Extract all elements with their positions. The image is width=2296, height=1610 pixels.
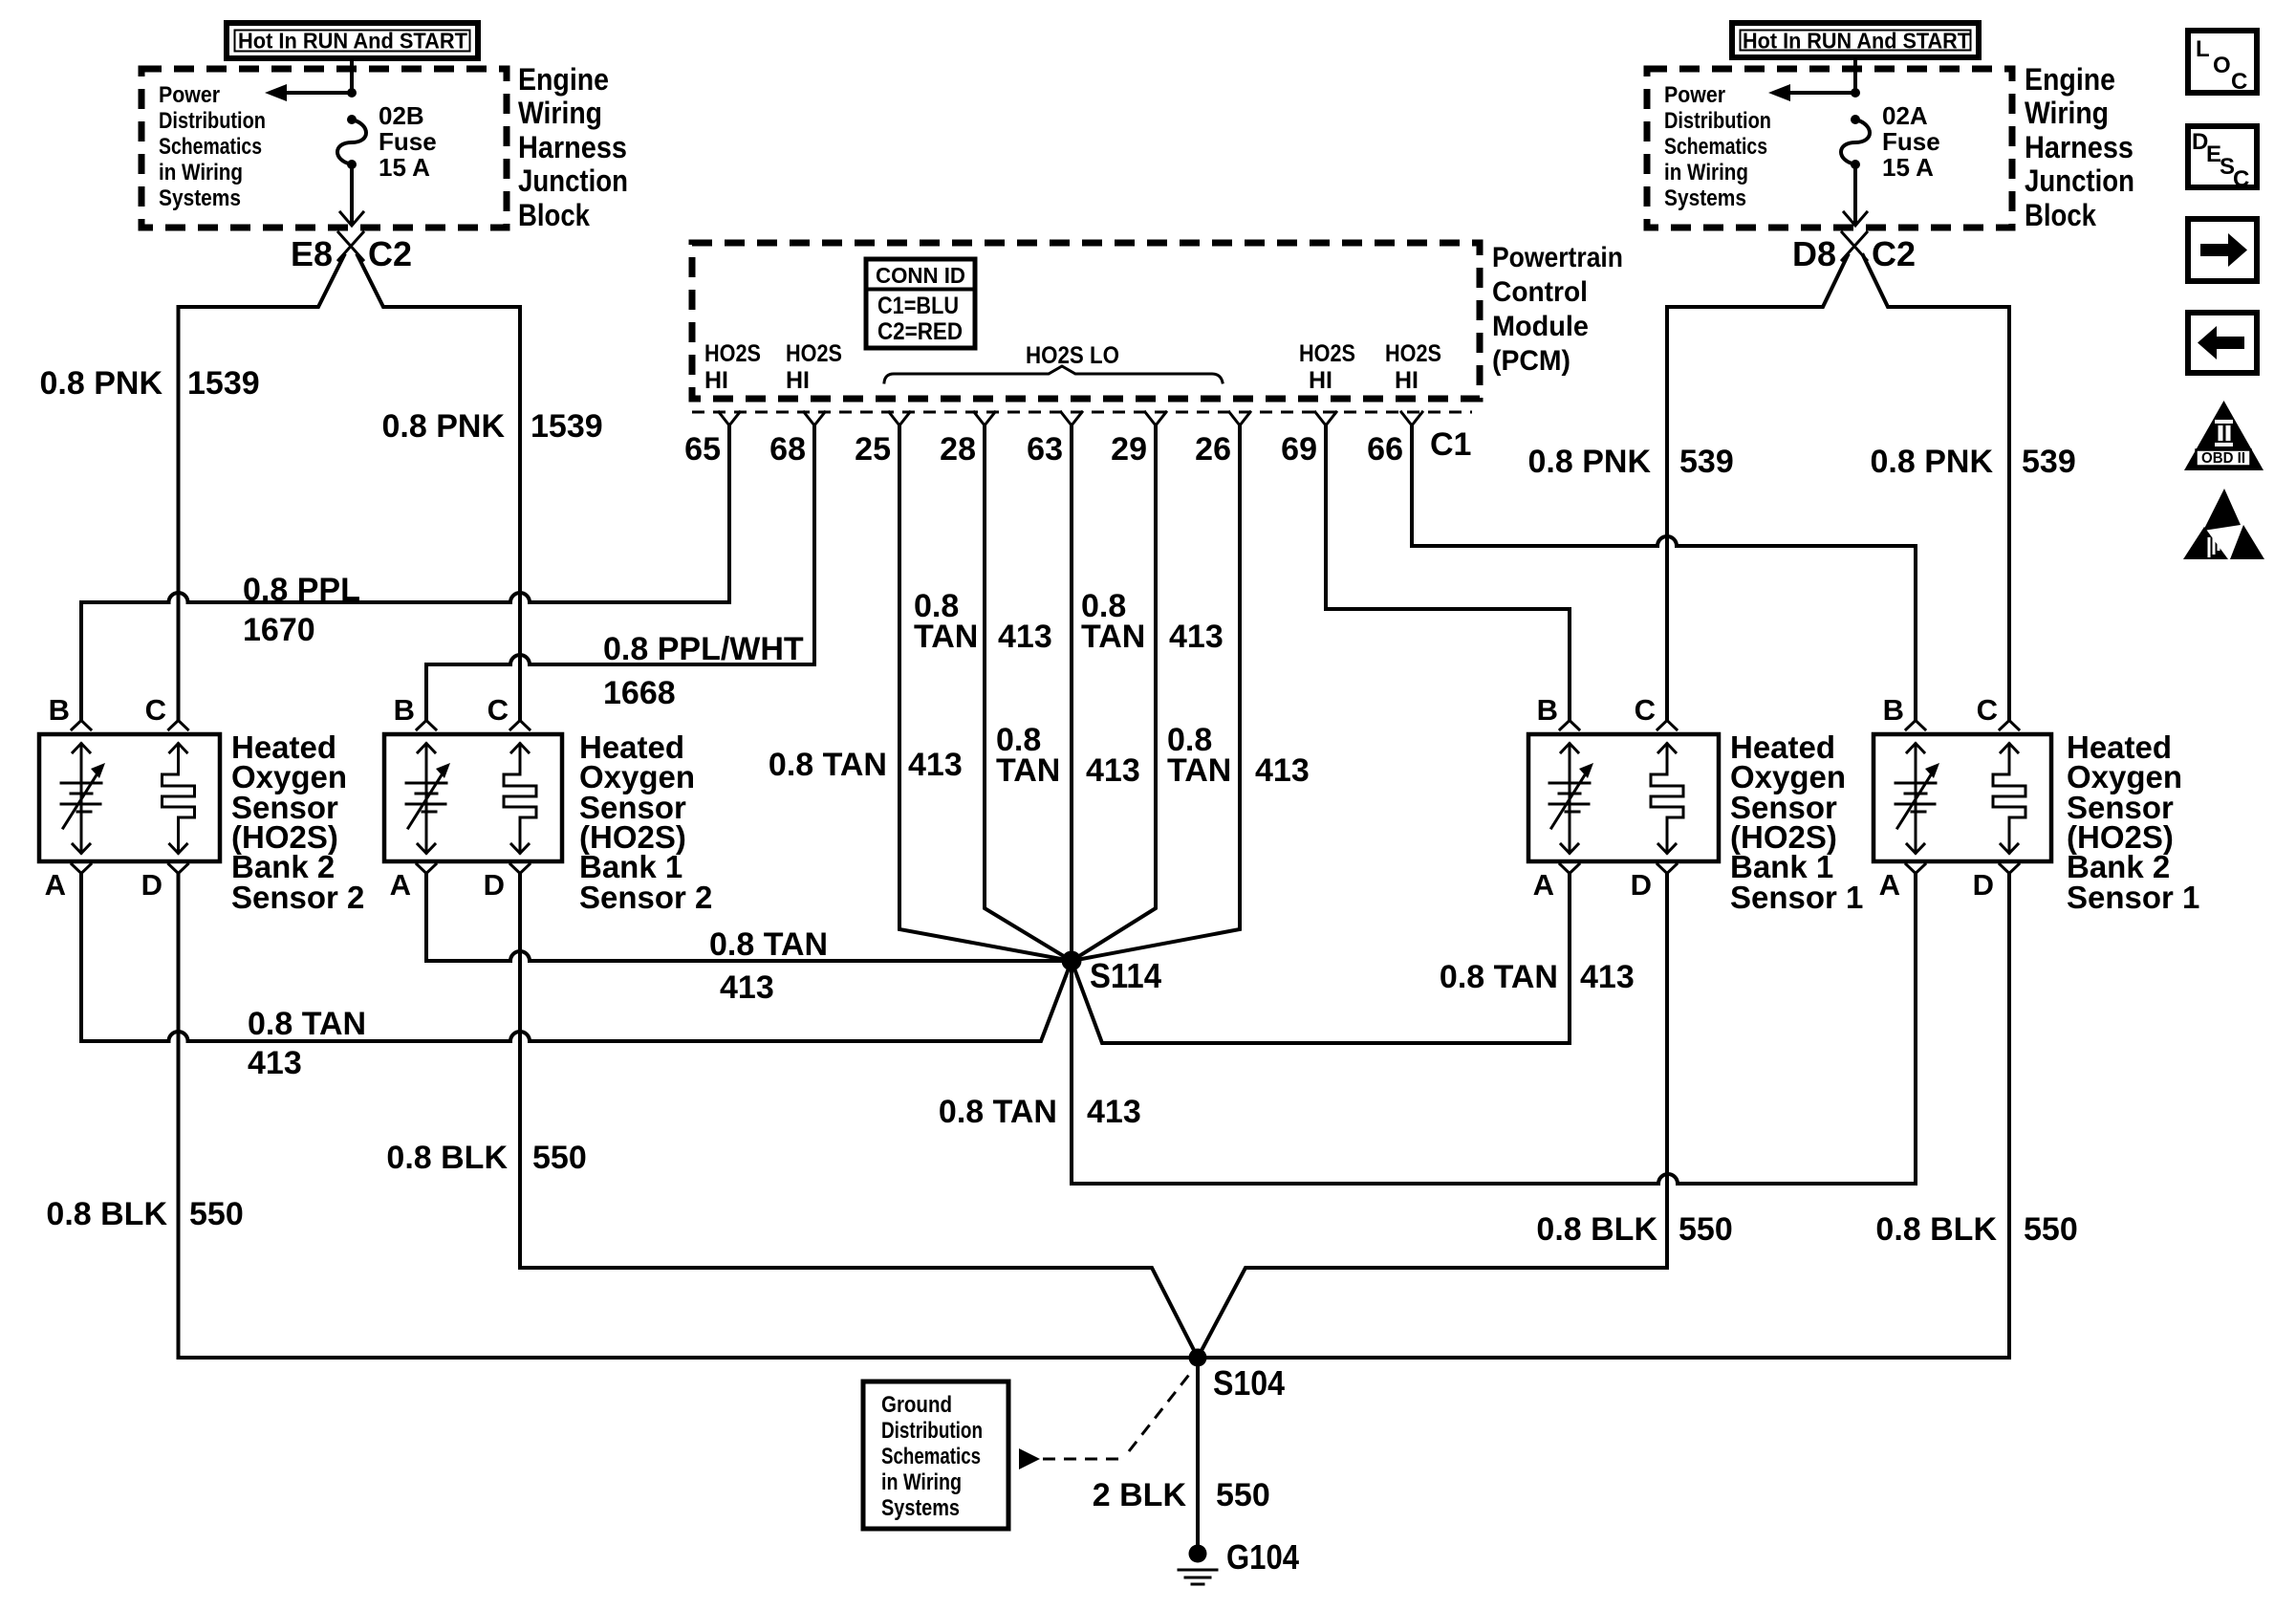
svg-text:0.8 BLK: 0.8 BLK xyxy=(386,1140,508,1176)
label box "Hot In RUN And START" (left) xyxy=(227,23,478,58)
svg-text:Power: Power xyxy=(1664,82,1725,108)
wire: pin 26 HO2S LO to S114 xyxy=(1072,425,1240,961)
svg-text:Fuse: Fuse xyxy=(379,127,437,156)
svg-text:15 A: 15 A xyxy=(1882,153,1934,182)
wire: HO2S B1S1 pin D BLK 550 to S104 xyxy=(1198,874,1667,1358)
svg-text:D: D xyxy=(141,868,162,902)
text: Engine Wiring Harness Junction Block (left) xyxy=(518,62,628,232)
svg-text:Power: Power xyxy=(159,82,220,108)
svg-text:Hot In RUN And START: Hot In RUN And START xyxy=(238,29,467,54)
svg-text:0.8 PNK: 0.8 PNK xyxy=(1528,444,1652,480)
svg-text:0.8 PNK: 0.8 PNK xyxy=(382,408,506,445)
svg-text:2 BLK: 2 BLK xyxy=(1093,1477,1187,1513)
pin A connector xyxy=(72,864,91,874)
heater element (B1S1) xyxy=(1549,744,1593,854)
splice S104 xyxy=(1189,1349,1207,1367)
svg-text:Wiring: Wiring xyxy=(518,96,602,130)
svg-text:0.8 PNK: 0.8 PNK xyxy=(40,365,163,402)
label: Heated Oxygen Sensor (HO2S) Bank 1 Sensor 2 xyxy=(579,729,712,915)
svg-text:1539: 1539 xyxy=(531,408,603,445)
svg-text:63: 63 xyxy=(1027,431,1063,468)
wire label 0.8 TAN 413 (pin 63) xyxy=(996,722,1140,789)
svg-text:O: O xyxy=(2213,53,2231,78)
fuse 02B 15 A xyxy=(337,101,437,182)
pin D connector xyxy=(169,864,188,874)
svg-text:A: A xyxy=(1879,868,1900,902)
svg-text:539: 539 xyxy=(1679,444,1734,480)
svg-text:Sensor 2: Sensor 2 xyxy=(231,880,364,915)
pin letters B C A D (B2S2) xyxy=(45,693,166,902)
svg-text:Distribution: Distribution xyxy=(1664,108,1771,134)
sensing element (B2S1) xyxy=(1993,744,2025,854)
CONN ID table xyxy=(866,259,975,348)
text: Power Distribution Schematics in Wiring Systems (right) xyxy=(1664,82,1771,211)
icon: OBD II triangle xyxy=(2184,401,2264,470)
svg-text:550: 550 xyxy=(2024,1211,2078,1248)
svg-text:Systems: Systems xyxy=(881,1495,960,1521)
pin 29 connector V xyxy=(1145,412,1166,425)
pin letters B C A D (B2S1) xyxy=(1879,693,1998,902)
svg-text:0.8 PPL: 0.8 PPL xyxy=(243,572,360,608)
wire label 0.8 PNK 1539 (left) xyxy=(40,365,260,402)
svg-text:Block: Block xyxy=(2025,198,2096,232)
pin C connector xyxy=(510,721,530,730)
connector E8 / C2 (X symbol) xyxy=(291,232,412,273)
svg-text:Sensor 1: Sensor 1 xyxy=(2067,880,2199,915)
text: Engine Wiring Harness Junction Block (right) xyxy=(2025,62,2134,232)
sensing element (B1S2) xyxy=(504,744,536,854)
pin B connector xyxy=(1906,721,1925,730)
pin C connector xyxy=(169,721,188,730)
wire: S114 down TAN 413 to HO2S B2S1 pin A xyxy=(1072,874,1916,1184)
svg-text:CONN ID: CONN ID xyxy=(876,263,965,288)
svg-text:0.8 BLK: 0.8 BLK xyxy=(46,1196,167,1232)
svg-text:Schematics: Schematics xyxy=(1664,134,1767,160)
svg-text:Module: Module xyxy=(1492,311,1589,342)
wire label 2 BLK 550 xyxy=(1093,1477,1270,1513)
svg-text:0.8 TAN: 0.8 TAN xyxy=(1440,959,1558,995)
wire: pin 63 HO2S LO to S114 xyxy=(1070,425,1073,961)
svg-text:0.8 BLK: 0.8 BLK xyxy=(1536,1211,1657,1248)
svg-text:Engine: Engine xyxy=(518,62,609,97)
splice S114 xyxy=(1062,951,1082,971)
svg-text:Junction: Junction xyxy=(518,163,628,198)
wire label 0.8 PNK 539 (right pair) xyxy=(1871,444,2076,480)
svg-text:26: 26 xyxy=(1195,431,1231,468)
svg-text:Sensor 2: Sensor 2 xyxy=(579,880,712,915)
svg-text:550: 550 xyxy=(189,1196,244,1232)
wire: HO2S B1S2 pin A TAN 413 to S114 xyxy=(426,874,1063,961)
heater element (B1S2) xyxy=(406,744,450,854)
svg-text:Powertrain: Powertrain xyxy=(1492,242,1623,273)
wire label 0.8 PNK 1539 (second) xyxy=(382,408,603,445)
junction node dot (left fuse top) xyxy=(347,88,357,98)
sensing element (B2S2) xyxy=(162,744,195,854)
svg-text:69: 69 xyxy=(1281,431,1317,468)
wire label 0.8 TAN 413 (B2S2 pin A) xyxy=(248,1006,366,1081)
wire: branch arrow to Power Distribution (left) xyxy=(285,91,352,95)
pin 25 connector V xyxy=(889,412,910,425)
svg-text:Schematics: Schematics xyxy=(159,134,262,160)
svg-text:D: D xyxy=(484,868,505,902)
svg-text:550: 550 xyxy=(1216,1477,1270,1513)
svg-text:TAN: TAN xyxy=(1167,752,1231,789)
wire: D8 left leg PNK 539 to HO2S B1S1 pin C xyxy=(1667,255,1848,720)
svg-text:in Wiring: in Wiring xyxy=(159,160,243,185)
svg-text:TAN: TAN xyxy=(1081,619,1145,655)
sensing element (B1S1) xyxy=(1651,744,1683,854)
svg-text:C1=BLU: C1=BLU xyxy=(877,293,959,319)
svg-text:HO2S: HO2S xyxy=(1385,340,1441,367)
wire: pin 69 to HO2S B1S1 pin B xyxy=(1326,425,1570,720)
svg-text:D8: D8 xyxy=(1792,234,1836,273)
pin 63 connector V xyxy=(1061,412,1082,425)
wire label 0.8 BLK 550 (B2S1 pin D) xyxy=(1875,1211,2077,1248)
svg-text:65: 65 xyxy=(684,431,721,468)
pin B connector xyxy=(1560,721,1579,730)
svg-text:0.8 TAN: 0.8 TAN xyxy=(769,747,887,783)
pin function label HO2S LO with brace xyxy=(884,342,1223,382)
wire label 0.8 PPL/WHT 1668 xyxy=(603,631,804,711)
pin A connector xyxy=(1906,864,1925,874)
wire: pin 65 PPL 1670 to HO2S B2S2 pin B xyxy=(81,425,729,720)
svg-text:C: C xyxy=(1977,693,1998,727)
HO2S B2S1 box xyxy=(1874,734,2051,861)
wire: pin 28 HO2S LO to S114 xyxy=(985,425,1072,961)
wire label 0.8 BLK 550 (B1S1 pin D) xyxy=(1536,1211,1732,1248)
icon: back arrow box xyxy=(2188,313,2257,373)
wire label 0.8 TAN 413 (B1S1 pin A) xyxy=(1440,959,1635,995)
svg-text:68: 68 xyxy=(769,431,806,468)
ground reference arrow and dashed leader to S104 xyxy=(1019,1448,1040,1469)
svg-text:02A: 02A xyxy=(1882,101,1928,130)
svg-text:C2: C2 xyxy=(368,234,412,273)
svg-text:02B: 02B xyxy=(379,101,424,130)
svg-text:413: 413 xyxy=(1255,752,1310,789)
wire: E8 right leg PNK 1539 to HO2S B1S2 pin C xyxy=(357,255,520,720)
HO2S B1S1 box xyxy=(1528,734,1719,861)
svg-text:S104: S104 xyxy=(1213,1363,1285,1403)
pin 68 connector V xyxy=(804,412,825,425)
label: Heated Oxygen Sensor (HO2S) Bank 2 Sensor 2 xyxy=(231,729,364,915)
fuse 02A 15 A xyxy=(1841,101,1940,182)
heater element (B2S1) xyxy=(1895,744,1939,854)
wire label 0.8 BLK 550 (B1S2 pin D) xyxy=(386,1140,586,1176)
wire: HO2S B2S2 pin D BLK 550 to S104 and on to B2S1 pin D xyxy=(179,874,2010,1358)
wire: fuse output arrow to connector (left) xyxy=(350,164,354,224)
svg-text:E8: E8 xyxy=(291,234,333,273)
svg-text:B: B xyxy=(1883,693,1904,727)
svg-text:C: C xyxy=(145,693,166,727)
wire: D8 right leg PNK 539 to HO2S B2S1 pin C xyxy=(1863,255,2009,720)
svg-text:413: 413 xyxy=(998,619,1052,655)
HO2S B1S2 box xyxy=(384,734,562,861)
wire: pin 25 HO2S LO to S114 xyxy=(899,425,1072,961)
svg-text:Junction: Junction xyxy=(2025,163,2134,198)
svg-text:Fuse: Fuse xyxy=(1882,127,1940,156)
svg-text:C1: C1 xyxy=(1430,426,1471,463)
pin D connector xyxy=(1657,864,1677,874)
pin B connector xyxy=(417,721,436,730)
wire: fuse output arrow to connector (right) xyxy=(1853,164,1857,224)
svg-text:Ground: Ground xyxy=(881,1392,952,1418)
svg-text:B: B xyxy=(49,693,70,727)
svg-text:S114: S114 xyxy=(1090,956,1161,995)
label: Heated Oxygen Sensor (HO2S) Bank 1 Sensor 1 xyxy=(1730,729,1863,915)
icon: LOC box xyxy=(2188,31,2257,95)
pin D connector xyxy=(510,864,530,874)
svg-text:TAN: TAN xyxy=(914,619,978,655)
svg-text:413: 413 xyxy=(1087,1094,1141,1130)
svg-text:Schematics: Schematics xyxy=(881,1444,981,1469)
pin B connector xyxy=(72,721,91,730)
svg-text:D: D xyxy=(1631,868,1652,902)
svg-text:C: C xyxy=(1635,693,1656,727)
svg-text:66: 66 xyxy=(1367,431,1403,468)
svg-text:HI: HI xyxy=(786,367,810,394)
pin letters B C A D (B1S2) xyxy=(390,693,509,902)
wire: S104 to G104 2 BLK 550 xyxy=(1196,1358,1200,1545)
svg-text:D: D xyxy=(1973,868,1994,902)
svg-text:413: 413 xyxy=(1580,959,1635,995)
svg-text:A: A xyxy=(45,868,66,902)
svg-text:29: 29 xyxy=(1111,431,1147,468)
pin number labels xyxy=(684,426,1471,468)
heater element (B2S2) xyxy=(61,744,105,854)
svg-text:A: A xyxy=(1533,868,1554,902)
svg-text:Wiring: Wiring xyxy=(2025,96,2109,130)
PCM C1 connector dashed row xyxy=(692,411,1472,414)
junction block dashed box (right) xyxy=(1647,69,2012,228)
PCM dashed box xyxy=(692,243,1480,399)
pin 26 connector V xyxy=(1229,412,1250,425)
icon: DESC box xyxy=(2188,126,2257,192)
svg-text:413: 413 xyxy=(720,969,774,1006)
pin A connector xyxy=(417,864,436,874)
connector D8 / C2 (X symbol) xyxy=(1792,232,1916,273)
svg-text:Sensor 1: Sensor 1 xyxy=(1730,880,1863,915)
ground distribution reference box xyxy=(863,1382,1008,1529)
svg-text:0.8 TAN: 0.8 TAN xyxy=(709,926,828,963)
svg-text:1539: 1539 xyxy=(187,365,260,402)
svg-text:Systems: Systems xyxy=(159,185,241,211)
svg-text:0.8 PNK: 0.8 PNK xyxy=(1871,444,1994,480)
pin D connector xyxy=(2000,864,2019,874)
svg-text:413: 413 xyxy=(1086,752,1140,789)
pin function label HO2S HI (pin 66) xyxy=(1385,340,1441,394)
wire label 0.8 TAN 413 (pin 29) xyxy=(1081,588,1224,655)
pin C connector xyxy=(2000,721,2019,730)
svg-text:1670: 1670 xyxy=(243,612,315,648)
wire: pin 66 to HO2S B2S1 pin B xyxy=(1412,425,1916,720)
wire: pin 29 HO2S LO to S114 xyxy=(1072,425,1156,961)
svg-text:HI: HI xyxy=(1309,367,1332,394)
svg-text:28: 28 xyxy=(940,431,976,468)
svg-text:Control: Control xyxy=(1492,276,1588,308)
svg-text:A: A xyxy=(390,868,411,902)
svg-text:Systems: Systems xyxy=(1664,185,1746,211)
svg-text:C2: C2 xyxy=(1872,234,1916,273)
svg-text:413: 413 xyxy=(1169,619,1224,655)
svg-text:0.8 PPL/WHT: 0.8 PPL/WHT xyxy=(603,631,804,667)
ground G104 xyxy=(1179,1537,1299,1584)
svg-text:HO2S: HO2S xyxy=(704,340,761,367)
svg-text:C: C xyxy=(2231,69,2247,95)
svg-text:B: B xyxy=(394,693,415,727)
text: Powertrain Control Module (PCM) xyxy=(1492,242,1623,377)
wire: E8 left leg PNK 1539 to HO2S B2S2 pin C xyxy=(179,255,345,720)
svg-text:C2=RED: C2=RED xyxy=(877,318,963,345)
svg-text:Harness: Harness xyxy=(2025,130,2134,164)
wire: HO2S B1S2 pin D BLK 550 to S104 xyxy=(520,874,1198,1358)
svg-text:550: 550 xyxy=(1679,1211,1733,1248)
wire label 0.8 TAN 413 (pin 25) xyxy=(769,747,963,783)
svg-text:Block: Block xyxy=(518,198,590,232)
pin 28 connector V xyxy=(974,412,995,425)
pin function label HO2S HI (pin 69) xyxy=(1299,340,1355,394)
junction node dot (right fuse top) xyxy=(1851,88,1860,98)
svg-text:Harness: Harness xyxy=(518,130,627,164)
svg-text:0.8 BLK: 0.8 BLK xyxy=(1875,1211,1997,1248)
wire: branch arrow to Power Distribution (right) xyxy=(1788,91,1855,95)
wire label 0.8 TAN 413 (B1S2 pin A) xyxy=(709,926,828,1006)
label box "Hot In RUN And START" (right) xyxy=(1732,23,1979,57)
text: Power Distribution Schematics in Wiring Systems (left) xyxy=(159,82,266,211)
wire label 0.8 TAN 413 (pin 28) xyxy=(914,588,1052,655)
svg-text:in Wiring: in Wiring xyxy=(1664,160,1748,185)
wire: HO2S B2S2 pin A TAN 413 to S114 xyxy=(81,874,1072,1041)
wire: feed from Hot In RUN box (right) xyxy=(1853,58,1857,93)
pin 66 connector V xyxy=(1401,412,1422,425)
wire: HO2S B1S1 pin A TAN 413 to S114 xyxy=(1072,874,1570,1043)
svg-text:B: B xyxy=(1537,693,1558,727)
svg-text:HO2S: HO2S xyxy=(1299,340,1355,367)
svg-text:(PCM): (PCM) xyxy=(1492,345,1570,377)
svg-text:0.8 TAN: 0.8 TAN xyxy=(248,1006,366,1042)
pin letters B C A D (B1S1) xyxy=(1533,693,1656,902)
wire label 0.8 PNK 539 (left pair, right side) xyxy=(1528,444,1734,480)
svg-text:HO2S LO: HO2S LO xyxy=(1026,342,1119,369)
wire: feed from Hot In RUN box (left) xyxy=(350,58,354,93)
label: Heated Oxygen Sensor (HO2S) Bank 2 Sensor 1 xyxy=(2067,729,2199,915)
pin C connector xyxy=(1657,721,1677,730)
wire label 0.8 TAN 413 (below S114) xyxy=(939,1094,1141,1130)
svg-text:G104: G104 xyxy=(1226,1537,1299,1577)
pin function label HO2S HI (pin 68) xyxy=(786,340,842,394)
junction block dashed box (left) xyxy=(141,69,507,228)
icon: ESD warning symbol xyxy=(2183,489,2264,559)
svg-text:413: 413 xyxy=(908,747,963,783)
svg-text:in Wiring: in Wiring xyxy=(881,1469,962,1495)
pin 69 connector V xyxy=(1315,412,1336,425)
svg-text:Distribution: Distribution xyxy=(159,108,266,134)
svg-text:539: 539 xyxy=(2022,444,2076,480)
pin 65 connector V xyxy=(719,412,740,425)
HO2S B2S2 box xyxy=(39,734,220,861)
svg-text:HI: HI xyxy=(704,367,728,394)
svg-text:HI: HI xyxy=(1395,367,1419,394)
svg-text:15 A: 15 A xyxy=(379,153,430,182)
svg-text:25: 25 xyxy=(855,431,891,468)
svg-text:L: L xyxy=(2196,36,2210,62)
icon: forward arrow box xyxy=(2188,219,2257,281)
svg-text:OBD II: OBD II xyxy=(2201,450,2245,467)
wire label 0.8 BLK 550 (B2S2 pin D) xyxy=(46,1196,243,1232)
svg-text:0.8 TAN: 0.8 TAN xyxy=(939,1094,1057,1130)
svg-text:1668: 1668 xyxy=(603,675,676,711)
wire label 0.8 TAN 413 (pin 26) xyxy=(1167,722,1310,789)
wire: pin 68 PPL/WHT 1668 to HO2S B1S2 pin B xyxy=(426,425,814,720)
pin A connector xyxy=(1560,864,1579,874)
pin function label HO2S HI (pin 65) xyxy=(704,340,761,394)
svg-text:Distribution: Distribution xyxy=(881,1418,983,1444)
svg-text:550: 550 xyxy=(532,1140,587,1176)
svg-text:413: 413 xyxy=(248,1045,302,1081)
svg-text:Hot In RUN And START: Hot In RUN And START xyxy=(1743,29,1970,54)
svg-text:Engine: Engine xyxy=(2025,62,2115,97)
svg-text:C: C xyxy=(2233,166,2249,192)
svg-text:C: C xyxy=(487,693,509,727)
svg-text:TAN: TAN xyxy=(996,752,1060,789)
wire label 0.8 PPL 1670 xyxy=(243,572,360,648)
svg-text:HO2S: HO2S xyxy=(786,340,842,367)
